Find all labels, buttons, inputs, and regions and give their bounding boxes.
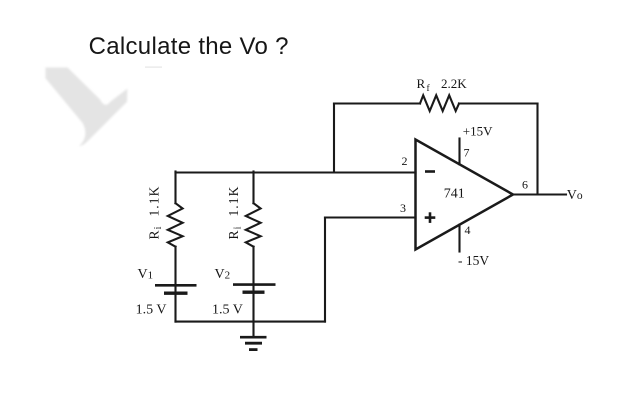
svg-text:R: R: [417, 76, 426, 91]
op-amp minus input sign: [425, 170, 435, 173]
wire: R2 bottom to battery V2: [252, 247, 254, 337]
wire: V2 column top: [252, 172, 254, 204]
faint watermark remnant line: [145, 66, 162, 68]
svg-text:4: 4: [465, 223, 471, 237]
wire: bottom rail: [176, 321, 326, 323]
svg-text:7: 7: [464, 146, 470, 160]
wire: V1 column top: [174, 172, 176, 204]
resistor Ri (R2) zigzag: [246, 203, 261, 247]
svg-text:1.5 V: 1.5 V: [212, 303, 243, 318]
svg-text:V1: V1: [138, 267, 154, 282]
battery V2 plates: [233, 285, 276, 293]
svg-text:3: 3: [400, 201, 406, 215]
wire: output to Vo: [512, 193, 566, 195]
svg-text:- 15V: - 15V: [458, 253, 489, 268]
wire: pin 7 (+15V): [458, 139, 460, 165]
wire: pin 4 (-15V): [458, 225, 460, 252]
svg-text:Ri 1.1K: Ri 1.1K: [226, 186, 244, 240]
wire: R1 bottom to battery V1: [174, 247, 176, 322]
wire: pin 3 horizontal: [325, 216, 416, 218]
svg-text:2.2K: 2.2K: [441, 76, 467, 91]
wire: feedback top right segment: [459, 102, 538, 104]
battery V1 plates: [155, 285, 197, 293]
svg-text:1.5 V: 1.5 V: [136, 303, 167, 318]
wire: feedback top left segment: [334, 102, 420, 104]
svg-text:741: 741: [444, 187, 465, 202]
op-amp U1 (741) triangle: [416, 140, 514, 250]
op-amp plus input sign: [425, 212, 436, 223]
svg-text:Vo: Vo: [567, 188, 583, 203]
svg-text:2: 2: [402, 154, 408, 168]
svg-text:Calculate the Vo ?: Calculate the Vo ?: [89, 33, 289, 60]
svg-text:+15V: +15V: [463, 123, 493, 138]
wire: feedback left leg: [333, 104, 335, 173]
wire: riser to pin 3: [324, 218, 326, 322]
ground: [240, 337, 267, 349]
watermark glyph (light gray y-shaped swoosh): [46, 68, 128, 147]
resistor Rf zigzag: [420, 95, 459, 111]
resistor Ri (R1) zigzag: [168, 203, 183, 247]
wire: feedback right leg: [536, 104, 538, 195]
svg-text:V2: V2: [215, 267, 231, 282]
svg-text:Ri 1.1K: Ri 1.1K: [146, 186, 164, 240]
wire: top input node (to pin 2): [176, 171, 416, 173]
svg-text:6: 6: [522, 178, 528, 192]
